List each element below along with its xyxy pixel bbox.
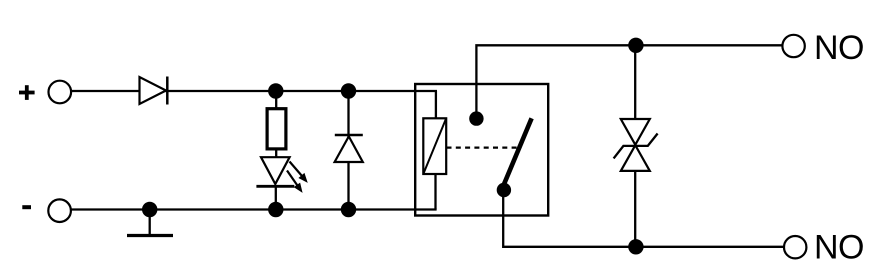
relay K1 outline box (415, 84, 548, 216)
wire pivot to bottom-right rail (503, 190, 784, 247)
ground (127, 210, 173, 236)
node junction top rail / resistor branch (268, 83, 283, 98)
LED light arrow 2 (287, 171, 302, 192)
diode D2 (reverse protection, cathode up) (335, 135, 363, 162)
wire resistor top lead (275, 91, 277, 109)
svg-text:NO: NO (814, 29, 864, 67)
node movable contact pivot (497, 183, 511, 197)
wire top rail (71, 90, 437, 92)
label + (positive input terminal) (19, 85, 35, 100)
node junction bottom-right rail / TVS (628, 239, 643, 254)
wire TVS branch (634, 45, 636, 247)
wire coil top lead (435, 91, 437, 119)
resistor R1 (267, 109, 286, 149)
wire coil bottom lead (434, 174, 436, 210)
node junction top rail / flyback diode branch (341, 83, 356, 98)
LED D3 (256, 157, 294, 186)
terminal circle NO bottom (784, 236, 806, 258)
dashed mechanical link coil to contact (447, 147, 520, 149)
diode D1 (series input diode) (140, 77, 168, 105)
wire flyback diode branch (347, 91, 349, 210)
wire bottom rail (71, 208, 437, 210)
wire fixed contact to top rail (476, 45, 782, 118)
node junction bottom rail / flyback diode branch (341, 202, 356, 217)
terminal circle NO top (782, 35, 804, 57)
terminal circle + (49, 81, 72, 104)
node junction top-right rail / TVS (628, 38, 643, 53)
wire resistor to LED (275, 149, 277, 158)
label - (negative input terminal) (22, 205, 31, 209)
node junction bottom rail / LED branch (268, 202, 283, 217)
wire LED bottom lead (275, 186, 277, 209)
node junction ground (142, 202, 157, 217)
svg-text:NO: NO (814, 228, 864, 266)
terminal circle - (48, 199, 71, 222)
node fixed contact (469, 111, 483, 125)
TVS suppressor RV1 (bidirectional) (614, 119, 658, 171)
relay coil (423, 118, 446, 174)
switch arm (relay contact) (503, 118, 532, 187)
LED light arrow 1 (290, 162, 307, 182)
